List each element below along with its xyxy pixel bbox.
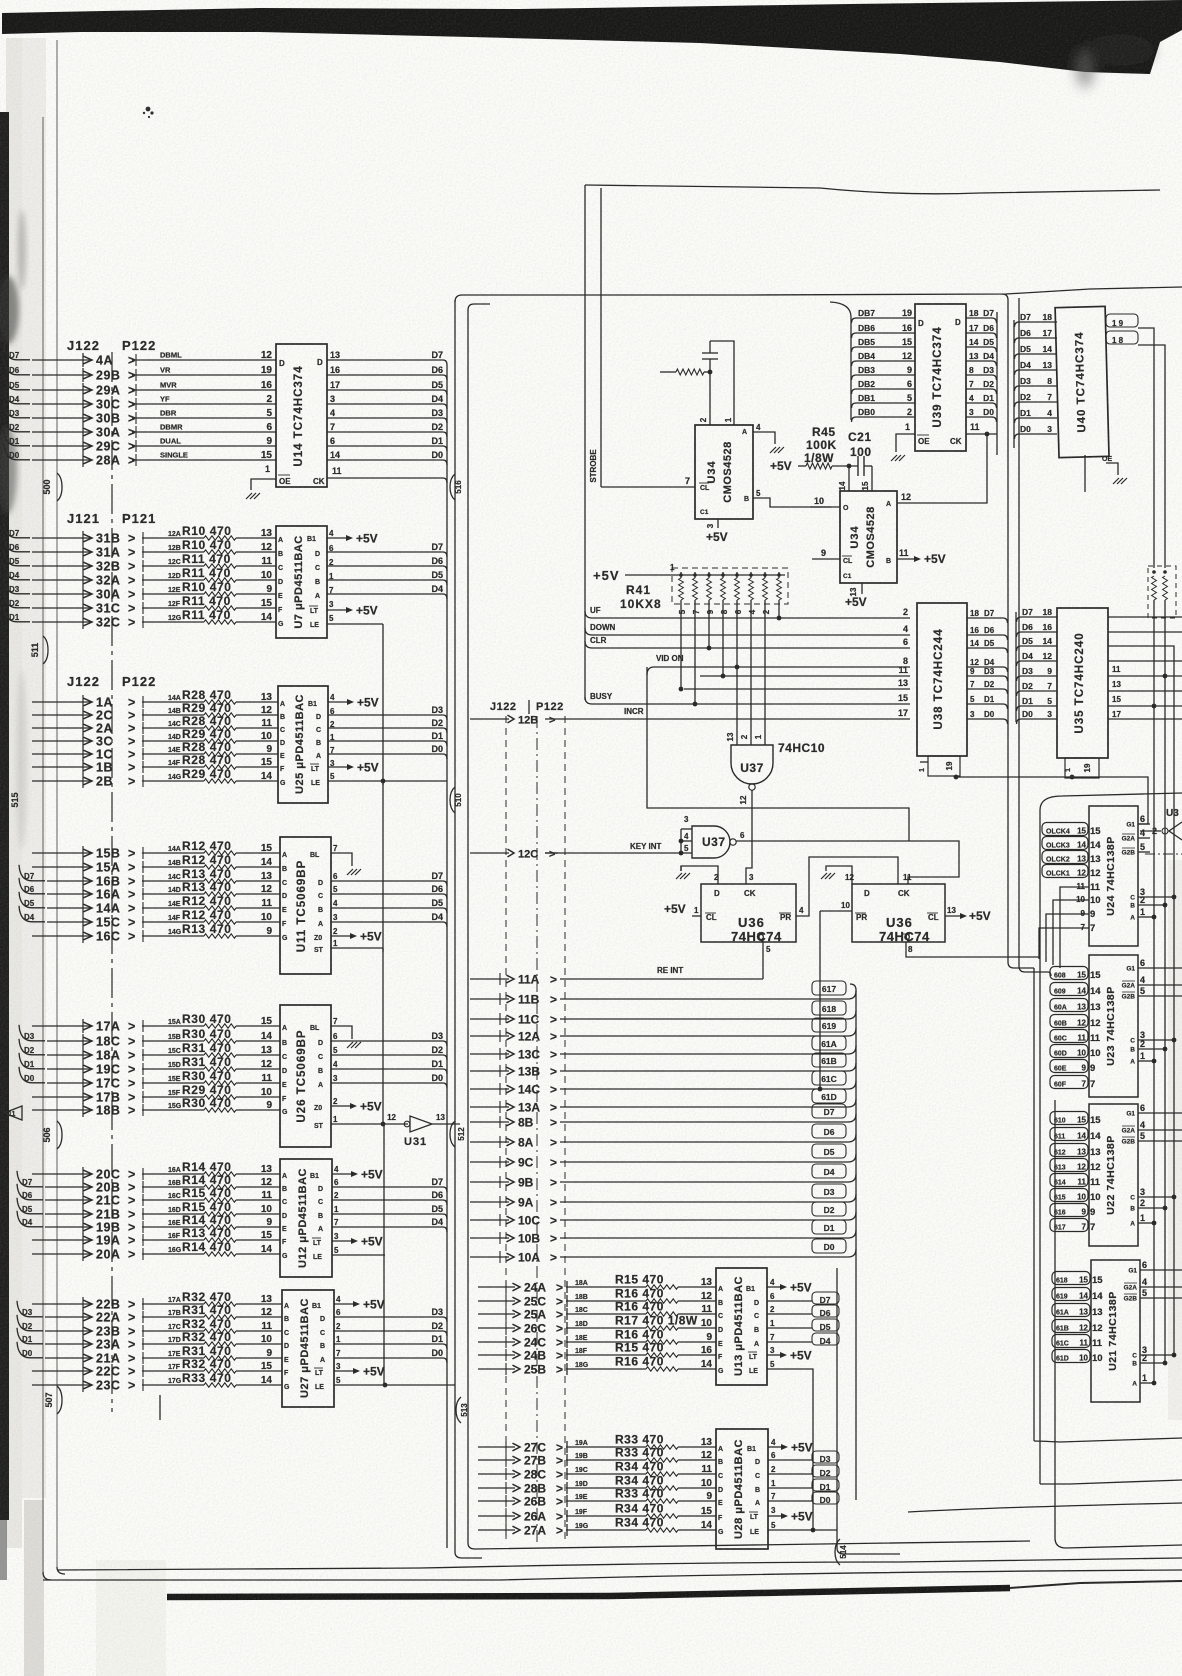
wire U38 pin19 to U24 G1 — [956, 777, 1148, 824]
IC U27 uPD4511BAC — [282, 1290, 334, 1407]
wire INCR row (12B) — [545, 707, 910, 719]
left bus tag (U11 row 16A) — [19, 878, 45, 894]
wire connector row 27B / resistor R33 (19B) — [478, 1446, 716, 1468]
net 515 label — [10, 792, 20, 807]
IC U36 74HC74 (second) — [852, 884, 945, 944]
wire U11 D pin 6 net D7 — [318, 871, 447, 887]
IC U34 CMOS4528 (first) — [695, 417, 753, 519]
left bus tag D1 (U14 row) — [4, 430, 30, 446]
label U36#2 CK pin11 — [903, 873, 912, 882]
ground (U26 BL) — [347, 1042, 361, 1048]
IC U40 TC74HC374 — [1055, 306, 1109, 457]
wire U26 C pin 5 net D2 — [318, 1045, 447, 1061]
wire U34 pin3 +5V — [706, 519, 728, 544]
node U28 LE junction — [811, 1528, 816, 1533]
resistor R30 470 (15B) — [142, 1027, 280, 1047]
resistor R45 100K — [806, 463, 832, 469]
middle chain line — [536, 716, 538, 1545]
wire U28 A pin7 net D0 — [755, 1492, 839, 1507]
resistor R29 470 (14G) — [142, 767, 278, 787]
wire U12 LT pin 3 to +5V — [312, 1232, 383, 1249]
wire U14 output pin 6 net D1 — [327, 436, 447, 451]
wire connector row 17A — [32, 1019, 135, 1034]
wire U12 C pin 2 net D6 — [318, 1190, 447, 1206]
wire U25 LE pin 5 — [311, 772, 447, 787]
ground (U11 BL) — [347, 869, 361, 875]
wire connector row 28A — [32, 453, 135, 468]
wire row 13B net 61B — [470, 1053, 856, 1079]
resistor R14 470 (16B) — [142, 1173, 280, 1193]
ground (U40) — [1113, 478, 1127, 484]
wire connector row 24B / resistor R15 (18F) — [478, 1341, 716, 1363]
wire U35 out row4 — [1108, 661, 1182, 674]
ground (U39 OE) — [891, 455, 905, 461]
wire connector row 18A — [47, 1048, 135, 1063]
IC U14 TC74HC374 — [276, 344, 327, 487]
wire row 13C net 61A — [470, 1036, 856, 1062]
wire +5V to R45 — [770, 459, 806, 473]
wire row 10B net D1 — [470, 1220, 856, 1246]
wire U13 B pin1 net D5 — [754, 1319, 839, 1334]
net 513 label — [456, 1397, 469, 1423]
net 507 label — [44, 1386, 62, 1414]
wire row 11B net 617 — [470, 981, 856, 1007]
node U39 CK junction — [985, 432, 990, 437]
wire gnd to U36 D pin2 — [681, 866, 719, 884]
wire U35 out row8 — [1108, 718, 1182, 720]
wire U28 LT pin3 +5V — [749, 1506, 813, 1524]
IC U23 74HC138P — [1089, 955, 1182, 1097]
wire U27 A pin 7 net D0 — [320, 1348, 447, 1364]
resistor R12 470 (14A) — [142, 839, 280, 859]
wire right-edge feed to U24 column — [1040, 793, 1182, 1484]
wire U34#2 pin 9 stub — [812, 548, 840, 559]
wire U27 C pin 2 net D2 — [320, 1321, 447, 1337]
U22 select input tags — [1050, 1112, 1101, 1234]
resistor R30 470 (15E) — [142, 1069, 280, 1089]
left pointer tag node 11 — [4, 1106, 22, 1120]
left bus tag (U26 row 18A) — [19, 1039, 45, 1055]
resistor R14 470 (16A) — [142, 1160, 280, 1180]
bottom border line 1 — [57, 1558, 1182, 1570]
wire connector row 12B — [470, 714, 560, 727]
wire connector row 22B — [32, 1297, 135, 1312]
wire U14 output pin 13 net D7 — [327, 350, 447, 365]
wire U7 D pin 6 net D7 — [315, 542, 447, 558]
wire U36#2 PR pin10 stub — [820, 901, 852, 911]
left bus tag D4 (U14 row) — [4, 388, 30, 404]
left bus tag (U26 row 19C) — [19, 1053, 45, 1069]
wire gnd to U36 D pin12 — [826, 866, 854, 884]
left bus tag (U11 row 16B) — [19, 865, 45, 881]
border vertical x837 — [837, 1268, 900, 1554]
wire U37#2 output — [736, 841, 959, 884]
wire connector row 32A — [32, 573, 135, 588]
border mid-left vertical inner — [468, 304, 1030, 1549]
wire R41 col to U37 pin1 — [764, 604, 766, 745]
left bus tag D3 (U7 row) — [4, 578, 30, 594]
left bus tag D2 (U14 row) — [4, 416, 30, 432]
wire U11 ST pin 1 — [314, 939, 383, 954]
wire U35 out row3 to vertical C — [1108, 646, 1174, 1355]
left bus tag D2 (U7 row) — [4, 592, 30, 608]
wire U37 output pin12 — [739, 790, 752, 884]
net 516 label — [450, 474, 463, 500]
U38 bottom pin box — [919, 756, 960, 776]
wire connector row 22C — [32, 1364, 135, 1379]
left bus tag D5 (U14 row) — [4, 374, 30, 390]
left bus tag D6 (U7 row) — [4, 536, 30, 552]
resistor R11 470 (12F) — [142, 594, 276, 614]
resistor R30 470 (15G) — [142, 1096, 280, 1116]
wire U36#2 CL pin13 +5V — [945, 906, 991, 923]
resistor R15 470 (16C) — [142, 1186, 280, 1206]
wire U11 Z0 pin 2 to +5V — [314, 927, 382, 944]
wire U40 pin19 out — [1106, 314, 1154, 568]
resistor R31 470 (17E) — [142, 1344, 282, 1364]
wire connector row 30A — [32, 587, 135, 602]
resistor R28 470 (14E) — [142, 740, 278, 760]
U39 input bus taps DB7-DB0 — [830, 302, 915, 422]
capacitor (U34 timing) — [702, 341, 718, 372]
resistor R32 470 (17A) — [142, 1290, 282, 1310]
wire far-right vertical B — [1164, 618, 1166, 1363]
wire U40 clock vertical — [1084, 455, 1086, 492]
connector J122 header (second) — [67, 674, 156, 689]
wire connector row 30B — [32, 411, 135, 426]
wire connector row 20B — [45, 1180, 135, 1195]
U24 pin wires to bundle — [1039, 887, 1089, 968]
wire stub below 23C — [159, 1395, 161, 1420]
border second horizontal — [455, 287, 1182, 302]
ground (U36 D second) — [821, 873, 835, 879]
wire far-right vertical A — [1153, 618, 1155, 1385]
wire VIDON branch — [647, 667, 909, 841]
wire signal DUAL to U14 pin 9 — [132, 436, 276, 452]
resistor R32 470 (17D) — [142, 1330, 282, 1350]
resistor R13 470 (16F) — [142, 1226, 280, 1246]
wire LE bus vertical — [382, 624, 384, 785]
IC U12 uPD4511BAC — [280, 1159, 332, 1277]
resistor R32 470 (17C) — [142, 1317, 282, 1337]
wire U40 CK to ground — [1102, 456, 1118, 475]
left bus tag (U27 row 21A) — [17, 1342, 43, 1358]
wire signal YF to U14 pin 2 — [132, 394, 276, 410]
node RC junction — [708, 370, 713, 375]
mid rows collector bus — [850, 984, 856, 1500]
resistor R33 470 (17G) — [142, 1371, 282, 1391]
resistor R28 470 (14F) — [142, 753, 278, 773]
U21 select input tags — [1052, 1272, 1103, 1365]
node U38 pin19 junction — [954, 775, 959, 780]
IC U22 74HC138P — [1089, 1103, 1182, 1246]
wire U39 CK pin11 — [966, 422, 997, 434]
left bus tag D6 (U14 row) — [4, 359, 30, 375]
wire U13 D pin6 net D7 — [754, 1292, 839, 1307]
wire connector row 4A — [32, 353, 135, 368]
wire STROBE to U34 CL — [601, 486, 695, 488]
wire R41 col to U37 pin2 — [750, 604, 752, 745]
wire U7 B1 pin 4 to +5V — [307, 529, 378, 546]
net 514 label — [835, 1539, 848, 1565]
net STROBE label — [589, 449, 598, 483]
wire U27 B pin 1 net D1 — [320, 1334, 447, 1350]
net 512 label — [450, 1121, 466, 1147]
wire U39 OE pin1 to ground — [896, 422, 915, 452]
wire connector row 18C — [47, 1034, 135, 1049]
resistor R13 470 (14C) — [142, 867, 280, 887]
wire row 9C net D5 — [470, 1144, 856, 1170]
resistor network R41 elements — [676, 572, 785, 604]
wire connector row 29A — [32, 383, 135, 398]
resistor R11 470 (12C) — [142, 552, 276, 572]
wire connector row 3C — [32, 734, 135, 749]
wire connector row 30C — [32, 397, 135, 412]
wire connector row 18B — [32, 1103, 135, 1118]
wire U13 LT pin3 +5V — [748, 1346, 812, 1363]
inverter U31 — [387, 1113, 460, 1148]
label U36 CK pin3 — [749, 873, 754, 882]
wire connector row 31B — [32, 531, 135, 546]
resistor network (right edge) — [1148, 566, 1176, 618]
outer border top — [585, 185, 1160, 194]
wire U14 output pin 3 net D4 — [327, 394, 447, 409]
wire U7 A pin 7 net D4 — [315, 584, 447, 600]
wire connector row 20A — [32, 1247, 135, 1262]
wire connector row 30A — [32, 425, 135, 440]
wire connector row 15C — [47, 915, 135, 930]
wire U12 B1 pin 4 to +5V — [310, 1165, 383, 1182]
IC U39 TC74HC374 — [915, 304, 966, 451]
wire U26 Z0 pin 2 to +5V — [314, 1097, 382, 1114]
label C21 — [848, 430, 872, 459]
capacitor C21 100 — [858, 456, 864, 476]
resistor R12 470 (14B) — [142, 853, 280, 873]
resistor R31 470 (15D) — [142, 1055, 280, 1075]
wire R41 col to row13 — [679, 604, 684, 691]
bottom border line right 1484 — [1040, 1480, 1182, 1484]
wire connector row 21C — [45, 1193, 135, 1208]
wire U14 output pin 7 net D2 — [327, 422, 447, 437]
wire connector row 25C / resistor R16 (18B) — [478, 1287, 716, 1309]
wire connector row 27A / resistor R34 (19G) — [478, 1516, 716, 1538]
wire U26 ST pin 1 — [314, 1115, 408, 1130]
wire U34 pin1 loop — [710, 341, 734, 425]
resistor R32 470 (17F) — [142, 1357, 282, 1377]
U24 select input tags — [1042, 823, 1101, 880]
wire U7 LT pin 3 to +5V — [309, 600, 378, 618]
resistor R14 470 (16G) — [142, 1240, 280, 1260]
IC U25 uPD4511BAC — [278, 686, 328, 803]
left bus tag (U12 row 20B) — [17, 1171, 43, 1187]
U39 output bus taps D7-D0 — [966, 308, 997, 455]
wire LE bus vertical 3 — [383, 1124, 385, 1385]
wire row pin11 — [700, 665, 910, 676]
wire signal VR to U14 pin 19 — [132, 365, 276, 381]
resistor R14 470 (16E) — [142, 1213, 280, 1233]
resistor R10 470 (12A) — [142, 524, 276, 544]
wire U34#2 A pin12 to U39 CK — [897, 434, 987, 503]
U35 input bus taps — [1016, 607, 1057, 724]
bottom border line right 1505 — [908, 1503, 1182, 1512]
wire CLR row — [585, 636, 910, 648]
wire row 12A net 619 — [470, 1018, 856, 1044]
border corner x43 — [43, 1572, 51, 1580]
IC U28 uPD4511BAC — [716, 1429, 768, 1549]
resistor R10 470 (12E) — [142, 580, 276, 600]
wire connector row 25B / resistor R16 (18G) — [478, 1355, 716, 1377]
wire connector row 25A / resistor R16 (18C) — [478, 1300, 716, 1322]
left bus tag (U26 row 18C) — [19, 1025, 45, 1041]
U35 bottom pin box — [1065, 758, 1099, 778]
wire U11 C pin 5 net D6 — [318, 884, 447, 900]
border corner x57 — [57, 1567, 65, 1574]
wire connector row 2A — [32, 721, 135, 736]
left bus tag D4 (U7 row) — [4, 564, 30, 580]
wire connector row 17B — [32, 1090, 135, 1105]
wire row 11C net 618 — [470, 1001, 856, 1027]
outer border left vertical — [584, 185, 586, 700]
net 510 label — [450, 787, 463, 813]
inverter U32 — [1140, 808, 1182, 840]
IC U7 uPD4511BAC — [276, 526, 327, 638]
wire connector row 23A — [45, 1337, 135, 1352]
wire U28 C pin2 net D2 — [755, 1465, 839, 1480]
wire R41 col to row11 — [721, 604, 726, 678]
net 506 label — [42, 1121, 62, 1149]
wire U35 out row5 — [1108, 674, 1182, 689]
strobe vertical line — [600, 188, 602, 487]
left bus tag (U12 row 21C) — [17, 1184, 43, 1200]
wire row 10A net D0 — [470, 1239, 856, 1265]
wire connector row 19A — [32, 1233, 135, 1248]
wire signal SINGLE to U14 pin 15 — [132, 450, 276, 466]
wire U36 CL pin1 +5V — [664, 902, 701, 916]
wire U25 LT pin 3 to +5V — [310, 759, 379, 775]
left bus tag (U26 row 17C) — [19, 1067, 45, 1083]
resistor R12 470 (14E) — [142, 894, 280, 914]
wire U26 A pin 3 net D0 — [318, 1073, 447, 1089]
wire U25 B pin 1 net D1 — [316, 731, 447, 747]
IC U26 TC5069BP — [280, 1005, 331, 1147]
bottom border line 2 — [43, 1570, 1182, 1580]
wire U35 out row6 — [1108, 691, 1182, 704]
left bus tag D1 (U7 row) — [4, 606, 30, 622]
wire connector row 2B — [32, 774, 135, 789]
wire BUSY row — [585, 692, 910, 704]
wire U36#2 Q pin8 down — [906, 942, 1040, 957]
resistor R30 470 (15A) — [142, 1012, 280, 1032]
wire U13 B1 pin4 +5V — [746, 1278, 812, 1295]
wire row 14C net 61C — [470, 1071, 856, 1097]
wire U35 out row7 — [1108, 704, 1182, 719]
IC U11 TC5069BP — [280, 837, 331, 974]
wire VID ON row — [647, 654, 910, 675]
resistor R31 470 (17B) — [142, 1303, 282, 1323]
wire U11 BL pin 7 to ground — [310, 844, 352, 866]
wire KEY INT row (12C) — [545, 842, 681, 853]
resistor R28 470 (14C) — [142, 714, 278, 734]
resistor R29 470 (14B) — [142, 701, 278, 721]
resistor R13 470 (14D) — [142, 880, 280, 900]
wire connector row 20C — [32, 1167, 135, 1182]
wire connector row 17C — [47, 1076, 135, 1091]
border mid-left vertical outer — [455, 300, 482, 1558]
wire U36#2 pin10 net vertical — [819, 911, 821, 1089]
U23 select input tags — [1050, 967, 1101, 1091]
left bus tag (U12 row 19B) — [17, 1211, 43, 1227]
label R41 10KX8 — [620, 583, 662, 611]
wire U35 out row1 — [1108, 616, 1182, 618]
wire connector row 1A — [32, 695, 135, 710]
wire U28 B pin1 net D1 — [755, 1479, 839, 1494]
U38 output bus taps — [967, 609, 1008, 724]
wire U35 out row2 — [1108, 631, 1182, 633]
resistor R11 470 (12G) — [142, 608, 276, 628]
U40 input bus taps — [1014, 312, 1057, 448]
wire row 9B net D4 — [470, 1164, 856, 1190]
wire connector row 16C — [32, 929, 135, 944]
wire connector row 21A — [45, 1351, 135, 1366]
wire U11 B pin 4 net D5 — [318, 898, 447, 914]
wire U40 pin18 out — [1106, 331, 1165, 568]
wire row 9A net D3 — [470, 1184, 856, 1210]
wire DOWN row — [585, 623, 910, 635]
IC U34 CMOS4528 (second) — [838, 481, 897, 583]
wire U26 BL pin 7 to ground — [310, 1017, 352, 1039]
wire U25 A pin 7 net D0 — [316, 744, 447, 760]
left bus tag (U27 row 23A) — [17, 1328, 43, 1344]
wire row 13A net 61D — [470, 1089, 856, 1115]
wire connector row 15A — [32, 860, 135, 875]
wire U12 B pin 1 net D5 — [318, 1204, 447, 1220]
left bus tag D3 (U14 row) — [4, 402, 30, 418]
node U25 LE junction — [381, 779, 386, 784]
resistor (U34 timing) — [660, 369, 710, 375]
resistor R15 470 (16D) — [142, 1200, 280, 1220]
gate U37 74HC10 — [726, 732, 825, 790]
node R45/C21 junction — [847, 464, 852, 469]
wire U34 B pin5 to U34 pin10 — [753, 489, 831, 507]
left bus tag (U12 row 21B) — [17, 1198, 43, 1214]
gate U37 (74HC10 second) — [679, 815, 745, 858]
border vertical x1055 — [1055, 1100, 1182, 1548]
wire +5V to R41 — [593, 563, 676, 583]
resistor R10 470 (12B) — [142, 538, 276, 558]
wire U27 B1 pin 4 to +5V — [312, 1295, 385, 1312]
wire row 8B net D7 — [470, 1104, 856, 1130]
resistor R31 470 (15C) — [142, 1041, 280, 1061]
connector J121 header — [67, 511, 156, 526]
wire connector row 16A — [47, 887, 135, 902]
label R45 — [804, 425, 837, 465]
wire U34 pin2 vertical — [709, 372, 711, 425]
wire connector row 29B — [32, 368, 135, 383]
left bus tag D7 (U14 row) — [4, 344, 30, 360]
wire connector row 15B — [32, 846, 135, 861]
wire U14 output pin 14 net D0 — [327, 450, 447, 465]
wire U28 B1 pin4 +5V — [747, 1438, 813, 1455]
left bus tag D0 (U14 row) — [4, 444, 30, 460]
ground (U34 A) — [770, 447, 784, 453]
wire connector row 26C / resistor R17 (18D) — [478, 1314, 716, 1336]
wire row 8A net D6 — [470, 1124, 856, 1150]
wire U13 LE pin5 to U28 LE — [749, 1360, 813, 1530]
ground (U36 D first) — [676, 873, 690, 879]
wire connector row 29C — [32, 439, 135, 454]
IC U21 74HC138P — [1091, 1260, 1182, 1402]
middle dashed line 2 — [564, 716, 566, 1540]
